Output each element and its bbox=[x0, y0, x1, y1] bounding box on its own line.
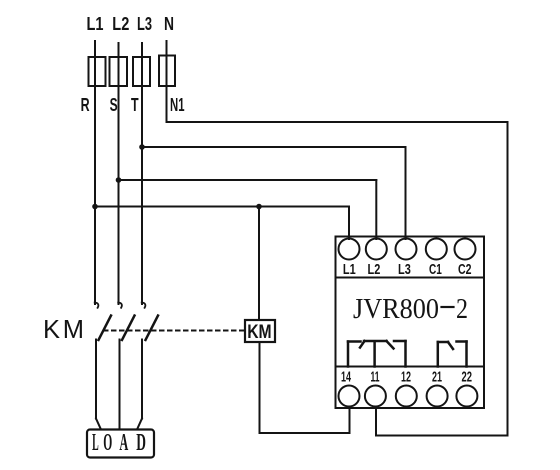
contactor pole 2 moving contact bbox=[122, 316, 135, 341]
svg-text:L1: L1 bbox=[343, 262, 356, 278]
wire T drop to relay L3 bbox=[405, 147, 407, 239]
fuse F3 bbox=[133, 57, 150, 86]
svg-text:2: 2 bbox=[456, 293, 468, 325]
junction coil branch bbox=[256, 204, 262, 210]
wire N1 horizontal run bbox=[167, 121, 508, 123]
svg-text:K M: K M bbox=[43, 316, 84, 344]
relay contact 21 arm diagonal bbox=[448, 342, 453, 349]
svg-text:14: 14 bbox=[341, 370, 351, 386]
wire N1 bottom horizontal to terminal 11 bbox=[376, 435, 508, 437]
terminal 14 circle bbox=[339, 386, 360, 407]
contactor pole 1 lower wire bbox=[95, 340, 97, 419]
svg-text:JVR800: JVR800 bbox=[353, 293, 439, 325]
contactor pole 3 moving contact bbox=[146, 316, 159, 341]
relay contact 21 vertical bbox=[437, 342, 440, 367]
wire L1 drop to relay terminal L1 bbox=[348, 207, 350, 240]
relay contact 14 top bar bbox=[348, 340, 361, 343]
terminal L1 circle bbox=[339, 239, 360, 260]
relay contact 12 vertical bbox=[404, 341, 407, 367]
svg-text:L3: L3 bbox=[137, 13, 152, 34]
relay contact 22 top bar bbox=[457, 340, 467, 343]
relay model text dash bbox=[442, 306, 454, 308]
wire N drop bbox=[166, 41, 168, 122]
svg-text:T: T bbox=[131, 95, 139, 115]
svg-text:A: A bbox=[119, 430, 128, 456]
terminal L3 circle bbox=[396, 239, 417, 260]
contactor pole 3 slant into load bbox=[137, 419, 142, 430]
relay contact 14 vertical bbox=[347, 342, 350, 367]
svg-text:C1: C1 bbox=[429, 262, 442, 278]
svg-text:D: D bbox=[136, 430, 146, 456]
relay contact 12 top bar bbox=[394, 340, 406, 343]
relay U1 JVR800-2 box bbox=[336, 237, 485, 409]
relay contact 14 NO tick bbox=[360, 341, 365, 348]
relay contact 11 arm diagonal bbox=[387, 341, 394, 349]
terminal C1 circle bbox=[426, 239, 447, 260]
wire L3 drop bbox=[141, 43, 143, 304]
wire L1 below junction to contactor bbox=[94, 207, 96, 305]
fuse F2 bbox=[110, 57, 128, 86]
relay contact 11 vertical bbox=[373, 342, 376, 367]
svg-text:12: 12 bbox=[401, 370, 411, 386]
relay bottom separator line bbox=[336, 366, 485, 368]
coil KM box bbox=[245, 320, 275, 342]
svg-text:22: 22 bbox=[462, 370, 473, 386]
svg-text:L3: L3 bbox=[398, 262, 411, 278]
contactor pole 1 fixed contact hook bbox=[95, 303, 99, 308]
svg-text:N: N bbox=[164, 13, 174, 34]
contactor pole 1 moving contact bbox=[99, 316, 112, 341]
relay contact 22 vertical bbox=[465, 342, 468, 367]
wire L2 drop bbox=[118, 43, 120, 304]
svg-text:KM: KM bbox=[247, 322, 271, 343]
svg-text:L1: L1 bbox=[87, 13, 104, 34]
fuse F4 bbox=[159, 56, 175, 87]
wire coil bottom horizontal to terminal 14 bbox=[260, 432, 350, 434]
terminal 21 circle bbox=[427, 386, 448, 407]
junction T branch bbox=[139, 144, 145, 150]
wire T horizontal run bbox=[142, 146, 406, 148]
wire S horizontal run bbox=[119, 179, 377, 181]
svg-text:C2: C2 bbox=[458, 262, 472, 278]
wire N1 right-side vertical bbox=[507, 122, 509, 436]
relay top separator line bbox=[336, 277, 485, 279]
contactor pole 3 fixed contact hook bbox=[142, 303, 146, 308]
svg-text:R: R bbox=[81, 95, 90, 115]
load box bbox=[87, 430, 154, 458]
svg-text:L2: L2 bbox=[368, 262, 381, 278]
wire terminal 14 rise bbox=[349, 407, 351, 434]
contactor pole 2 lower wire bbox=[119, 340, 121, 430]
svg-text:O: O bbox=[103, 430, 112, 456]
wire L1 horizontal run bbox=[95, 206, 349, 208]
svg-text:L2: L2 bbox=[112, 13, 129, 34]
terminal L2 circle bbox=[366, 239, 387, 260]
fuse F1 bbox=[89, 57, 106, 86]
terminal C2 circle bbox=[455, 239, 476, 260]
relay contact 11 arm bar bbox=[364, 340, 387, 343]
terminal 11 circle bbox=[365, 386, 386, 407]
contactor pole 2 fixed contact hook bbox=[118, 303, 122, 308]
terminal 22 circle bbox=[456, 386, 477, 407]
wire S drop to relay L2 bbox=[375, 180, 377, 239]
wire coil output drop bbox=[259, 342, 261, 433]
terminal 12 circle bbox=[396, 386, 417, 407]
wire L1 drop to fuse bbox=[94, 41, 96, 207]
svg-text:S: S bbox=[110, 95, 118, 115]
svg-text:N1: N1 bbox=[170, 95, 185, 115]
svg-text:11: 11 bbox=[371, 370, 380, 386]
junction S branch bbox=[116, 177, 122, 183]
contactor mechanical linkage dashed line bbox=[104, 330, 245, 332]
svg-text:21: 21 bbox=[432, 370, 442, 386]
wire coil feed drop bbox=[258, 207, 260, 321]
junction L1 branch bbox=[92, 204, 98, 210]
contactor pole 1 slant into load bbox=[96, 419, 101, 430]
wire terminal 11 drop bbox=[375, 407, 377, 436]
relay contact 21 arm bar bbox=[438, 341, 448, 344]
svg-text:L: L bbox=[92, 430, 99, 456]
contactor pole 3 lower wire bbox=[141, 340, 143, 419]
